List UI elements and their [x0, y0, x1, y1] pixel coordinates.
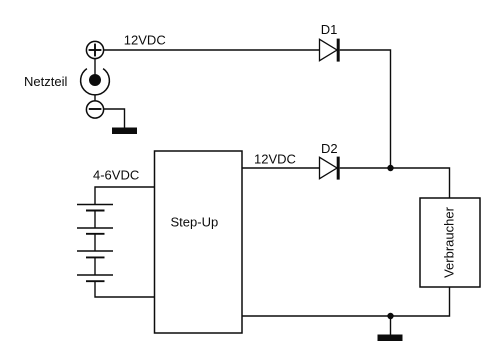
svg-text:4-6VDC: 4-6VDC: [93, 168, 139, 183]
ground (bottom): [378, 335, 403, 342]
wire junction B to ground: [390, 316, 392, 335]
ground (Netzteil): [112, 128, 137, 135]
label D2: [321, 141, 338, 156]
power supply plus terminal: [86, 41, 103, 58]
wire battery top to Step-Up input: [95, 187, 155, 205]
wire battery bottom to Step-Up input: [95, 281, 155, 297]
svg-text:12VDC: 12VDC: [254, 152, 296, 167]
label 12VDC (mid net): [254, 152, 296, 167]
wire plus terminal to connector: [94, 59, 96, 75]
wire 12VDC top: plus terminal to diode D1: [104, 49, 320, 51]
load box Verbraucher: [420, 198, 480, 287]
Step-Up converter box U1: [155, 151, 243, 333]
wire minus terminal to ground: [104, 109, 125, 128]
wire D1 to corner and down to junction A: [340, 50, 391, 168]
svg-text:D1: D1: [321, 22, 338, 37]
label 4-6VDC: [93, 168, 139, 183]
label 12VDC (top net): [124, 33, 166, 48]
svg-text:Verbraucher: Verbraucher: [441, 206, 456, 277]
power supply DC connector symbol: [81, 69, 110, 95]
wire Step-Up output to diode D2: [242, 167, 320, 169]
svg-text:12VDC: 12VDC: [124, 33, 166, 48]
svg-text:Netzteil: Netzteil: [24, 74, 67, 89]
battery B1 (4 cells): [77, 205, 113, 282]
power supply minus terminal: [86, 101, 103, 118]
label D1: [321, 22, 338, 37]
diode D1: [320, 39, 340, 62]
wire Verbraucher bottom to return line: [242, 287, 450, 316]
node junction A (dot): [387, 165, 393, 171]
node junction B (dot): [387, 313, 393, 319]
diode D2: [320, 157, 340, 180]
label Netzteil: [24, 74, 67, 89]
wire connector to minus terminal: [94, 95, 96, 101]
wire D2 to junction A and on to Verbraucher top: [340, 168, 450, 198]
svg-text:Step-Up: Step-Up: [171, 215, 219, 230]
svg-text:D2: D2: [321, 141, 338, 156]
